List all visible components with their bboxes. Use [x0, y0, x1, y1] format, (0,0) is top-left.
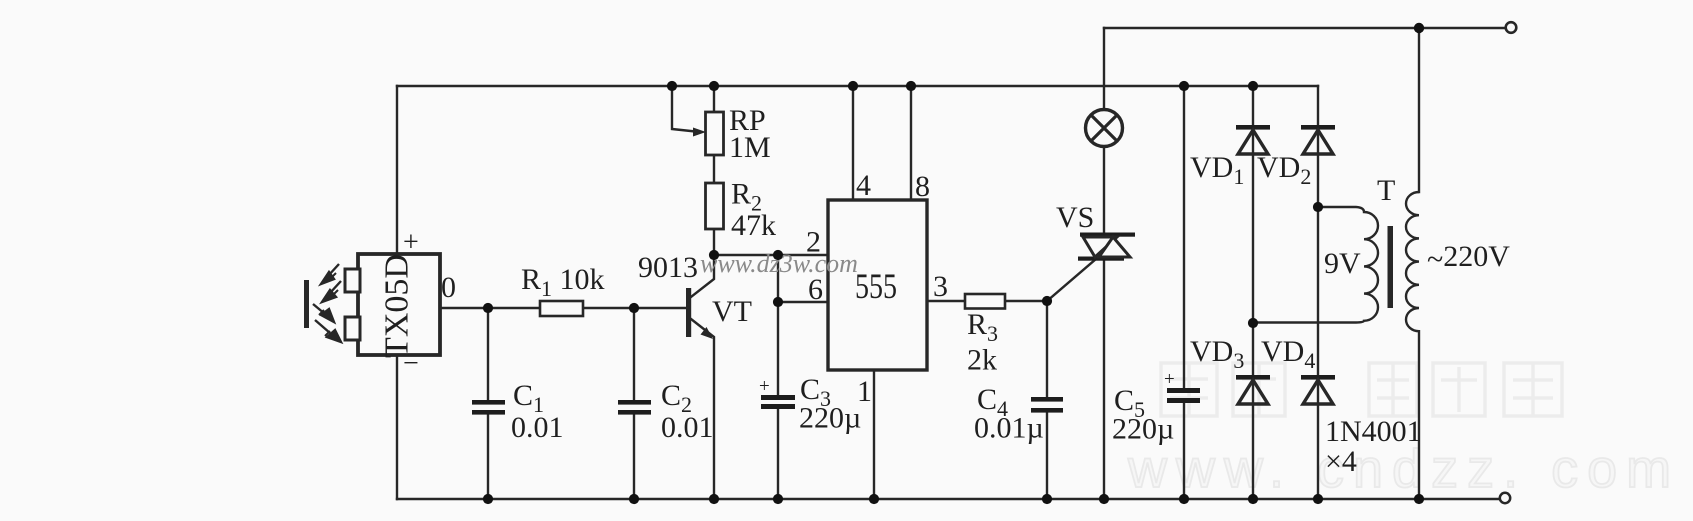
svg-text:VD1: VD1 — [1190, 151, 1244, 189]
svg-text:9V: 9V — [1324, 247, 1361, 280]
svg-text:+: + — [759, 376, 770, 397]
svg-text:www. cndzz. com: www. cndzz. com — [1127, 439, 1680, 499]
svg-text:2: 2 — [806, 226, 821, 259]
svg-text:VD3: VD3 — [1190, 335, 1244, 373]
svg-text:×4: ×4 — [1325, 445, 1357, 478]
svg-text:VT: VT — [712, 295, 752, 328]
svg-text:9013: 9013 — [638, 251, 698, 284]
svg-text:3: 3 — [933, 270, 948, 303]
svg-text:0.01: 0.01 — [511, 411, 564, 444]
svg-text:0.01µ: 0.01µ — [974, 412, 1044, 445]
svg-text:1M: 1M — [729, 131, 771, 164]
svg-text:−: − — [403, 348, 419, 379]
svg-text:6: 6 — [808, 273, 823, 306]
svg-text:TX05D: TX05D — [379, 254, 416, 358]
svg-text:VD2: VD2 — [1257, 151, 1311, 189]
svg-text:R3: R3 — [967, 308, 998, 346]
svg-text:VS: VS — [1056, 201, 1094, 234]
svg-text:0.01: 0.01 — [661, 411, 714, 444]
svg-text:R1 10k: R1 10k — [521, 263, 605, 301]
svg-text:www.dz3w.com: www.dz3w.com — [700, 249, 858, 278]
svg-text:47k: 47k — [731, 209, 776, 242]
svg-text:2k: 2k — [967, 344, 997, 377]
svg-text:0: 0 — [441, 271, 456, 304]
svg-text:220µ: 220µ — [799, 402, 861, 435]
svg-text:220µ: 220µ — [1112, 413, 1174, 446]
svg-text:T: T — [1377, 174, 1395, 207]
svg-text:VD4: VD4 — [1261, 335, 1315, 373]
svg-text:1N4001: 1N4001 — [1325, 415, 1422, 448]
svg-text:+: + — [1164, 369, 1175, 390]
svg-text:~220V: ~220V — [1427, 240, 1510, 276]
svg-text:4: 4 — [856, 169, 871, 202]
svg-text:555: 555 — [855, 266, 897, 306]
svg-text:+: + — [403, 227, 419, 258]
svg-text:8: 8 — [915, 170, 930, 203]
